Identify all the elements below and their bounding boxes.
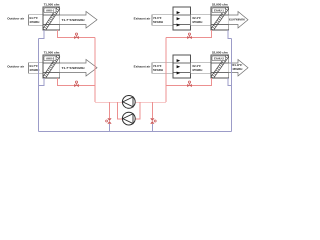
- pump P-1 (lead): [122, 96, 135, 109]
- wire: right bypass drop (blue part): [151, 124, 153, 131]
- direct evaporative cooler casing: [173, 55, 191, 78]
- control valve (2-way, actuated) on pipe at (189.5,85.5): [187, 81, 192, 87]
- wire: blue tie to EAHU-1 coil: [228, 30, 232, 39]
- outdoor air condition box 94.7F 40%RH: [29, 15, 44, 26]
- svg-text:95%RH: 95%RH: [192, 20, 202, 24]
- cooling coil inside AHU-2: [43, 55, 60, 78]
- wire: left red riser: [94, 38, 96, 103]
- svg-text:71,000 cfm: 71,000 cfm: [44, 2, 60, 6]
- svg-text:40%RH: 40%RH: [29, 20, 39, 24]
- control valve (2-way, actuated) on pipe at (76.5,85.5): [74, 81, 79, 87]
- wire: chilled supply from AHU-2 coil: [38, 78, 44, 86]
- wire: bottom blue main: [38, 130, 231, 132]
- duct lines through evaporative cooler and EAHU-1: [173, 15, 229, 25]
- wire: left blue riser: [37, 39, 39, 132]
- svg-text:48%RH: 48%RH: [232, 67, 242, 71]
- svg-text:63.9°F/66%RH: 63.9°F/66%RH: [229, 18, 245, 22]
- cooling coil inside AHU-1: [43, 7, 60, 30]
- control valve (2-way, actuated) on pipe at (76.5,37.5): [74, 33, 79, 39]
- wire: left bypass drop (red part): [109, 102, 111, 118]
- pump P-2 (standby): [122, 112, 135, 125]
- svg-text:EAHU-2: EAHU-2: [214, 57, 224, 61]
- exhaust air condition box 72.0F 50%RH: [152, 15, 173, 26]
- unit tag AHU-2: [44, 56, 56, 61]
- svg-text:95%RH: 95%RH: [192, 68, 202, 72]
- duct lines through AHU-2: [43, 63, 60, 73]
- cooled exhaust condition box 62.4F 95%RH: [191, 15, 212, 26]
- balancing valve on vertical pipe at (152.3,121): [150, 118, 156, 123]
- duct lines through evaporative cooler and EAHU-2: [173, 63, 229, 73]
- exhaust discharge arrow: [229, 12, 248, 29]
- svg-text:50%RH: 50%RH: [153, 20, 163, 24]
- svg-text:71.7°F/93%RH: 71.7°F/93%RH: [62, 18, 85, 22]
- wire: right bypass drop (red part): [151, 102, 153, 118]
- exhaust discharge arrow: [229, 60, 248, 77]
- wire: return from EAHU-1 coil: [166, 30, 212, 38]
- cooled exhaust condition box 62.4F 95%RH: [191, 63, 212, 74]
- direct evaporative cooler casing: [173, 7, 191, 30]
- wire: hot water return from AHU-1 coil: [58, 30, 95, 38]
- heat recovery coil inside EAHU-1: [211, 7, 229, 30]
- wire: return from EAHU-2 coil: [166, 78, 212, 86]
- air handling unit AHU-2 casing: [43, 55, 60, 78]
- svg-text:Exhaust air: Exhaust air: [134, 16, 151, 20]
- wire: left bypass drop (blue part): [109, 124, 111, 131]
- air handling unit AHU-1 casing: [43, 7, 60, 30]
- svg-text:52,900 cfm: 52,900 cfm: [212, 50, 228, 54]
- svg-text:AHU-1: AHU-1: [46, 9, 55, 13]
- unit tag AHU-1: [44, 8, 56, 13]
- wire: right blue riser: [231, 39, 233, 132]
- wire: hot water return from AHU-2 coil: [58, 78, 95, 86]
- supply air arrow 71.7F/93%RH: [60, 60, 97, 77]
- svg-text:52,900 cfm: 52,900 cfm: [212, 2, 228, 6]
- exhaust air condition box 72.0F 50%RH: [152, 63, 173, 74]
- wire: standby pump branch: [118, 102, 141, 119]
- wire: blue tie to EAHU-2 coil: [228, 78, 232, 86]
- duct lines through AHU-1: [43, 15, 60, 25]
- control valve (2-way, actuated) on pipe at (189.5,37.5): [187, 33, 192, 39]
- balancing valve on vertical pipe at (109.5,121): [106, 118, 112, 123]
- wire: right red riser: [165, 38, 167, 103]
- supply air arrow 71.7F/93%RH: [60, 12, 97, 29]
- svg-text:EAHU-1: EAHU-1: [214, 9, 224, 13]
- outdoor air condition box 94.7F 40%RH: [29, 63, 44, 74]
- spray nozzles (3 arrows) in evaporative cooler: [177, 11, 181, 26]
- unit tag EAHU-1: [212, 8, 226, 13]
- svg-text:71,000 cfm: 71,000 cfm: [44, 50, 60, 54]
- heat recovery coil inside EAHU-2: [211, 55, 229, 78]
- spray nozzles (3 arrows) in evaporative cooler: [177, 59, 181, 74]
- svg-text:Exhaust air: Exhaust air: [134, 64, 151, 68]
- svg-text:Outdoor air: Outdoor air: [7, 64, 25, 68]
- svg-text:Outdoor air: Outdoor air: [7, 16, 25, 20]
- wire: chilled supply from AHU-1 coil: [38, 30, 44, 39]
- heat recovery unit EAHU-2 casing: [211, 55, 229, 78]
- svg-text:71.7°F/93%RH: 71.7°F/93%RH: [62, 66, 85, 70]
- wire: pump suction header: [95, 101, 166, 103]
- svg-text:AHU-2: AHU-2: [46, 57, 55, 61]
- svg-text:50%RH: 50%RH: [153, 68, 163, 72]
- heat recovery unit EAHU-1 casing: [211, 7, 229, 30]
- unit tag EAHU-2: [212, 56, 226, 61]
